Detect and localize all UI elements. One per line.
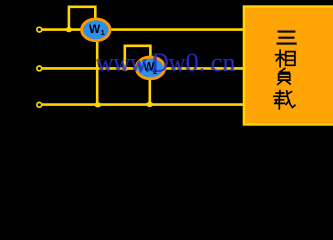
svg-text:cn: cn	[211, 47, 236, 77]
svg-text:www.: www.	[97, 47, 152, 77]
svg-text:0.: 0.	[186, 47, 206, 77]
svg-text:W: W	[89, 22, 101, 36]
svg-text:Dw: Dw	[152, 47, 186, 77]
